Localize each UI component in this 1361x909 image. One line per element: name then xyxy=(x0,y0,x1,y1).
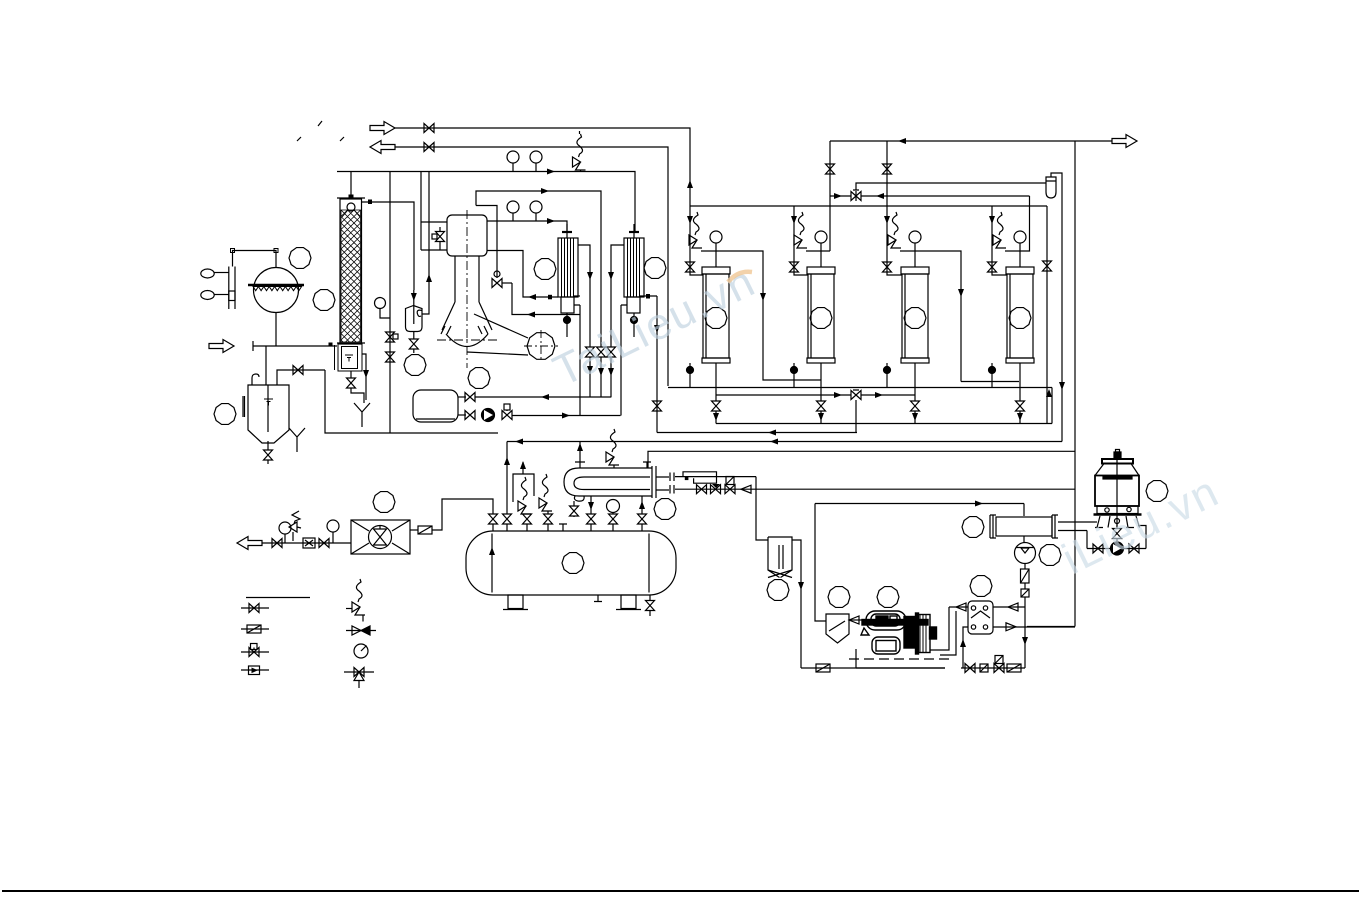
wire plate HX bottom left down xyxy=(963,627,968,668)
tag octagon plate HX xyxy=(970,576,992,597)
tag octagon HX1 xyxy=(534,259,556,280)
wire tank top to valve xyxy=(277,370,325,385)
sump drain valve xyxy=(350,371,352,378)
gauge on receiver xyxy=(607,500,620,513)
HX2 tubes xyxy=(628,238,640,297)
column E1 bottom cap xyxy=(702,358,730,363)
relief rv1 xyxy=(518,477,531,514)
receiver vessel V1 xyxy=(466,531,676,595)
nozzle left top xyxy=(575,442,585,469)
tower body xyxy=(1095,476,1139,507)
tag octagon condenser xyxy=(962,517,984,538)
bypass jog xyxy=(683,472,717,483)
valve on x657 xyxy=(653,401,662,411)
receiver tag octagon xyxy=(562,553,584,574)
nozzle n4 valve xyxy=(547,511,549,531)
HX1 bottom header xyxy=(561,297,574,313)
fan discharge xyxy=(410,529,418,531)
tag octagon xyxy=(289,248,311,269)
wire y451 header xyxy=(648,451,1075,468)
SA inner lines xyxy=(779,545,783,569)
wire y415 to x620 xyxy=(512,415,621,417)
wire x830 drop xyxy=(829,141,831,251)
receiver leg L xyxy=(508,595,523,609)
tag octagon motor xyxy=(468,368,490,389)
control valve oil xyxy=(816,664,830,672)
columns group xyxy=(686,180,822,424)
wire plate HX bottom right to loop xyxy=(993,626,1075,628)
column E2 stem xyxy=(820,363,822,401)
boundary arrow out right xyxy=(1112,135,1137,148)
wire y183 to filter xyxy=(856,183,1046,190)
wire converter side loop xyxy=(476,206,497,279)
3way valve with box xyxy=(502,411,512,420)
condenser CD1 xyxy=(996,517,1052,536)
wire y381 link xyxy=(961,381,1019,383)
suction accumulator SA xyxy=(768,537,792,578)
relief valve on overhead xyxy=(573,131,586,172)
tower shaft xyxy=(1116,459,1118,528)
column E2 feed xyxy=(794,206,808,275)
converter centerline xyxy=(466,210,468,368)
wire y423 bottoms header xyxy=(716,388,1052,424)
gauge2 on converter line xyxy=(530,201,542,221)
arrow up x1047 xyxy=(1046,389,1052,397)
pump P2 xyxy=(1111,542,1124,555)
wire suction drop xyxy=(756,477,768,540)
receiver drain valve xyxy=(649,595,651,616)
tag octagon receiver right xyxy=(654,499,676,520)
gauge fs2 xyxy=(327,520,339,532)
tag octagon HX2 xyxy=(644,258,666,279)
receiver leg R xyxy=(621,595,636,609)
wire converter top to HX1 xyxy=(487,221,567,232)
solenoid box xyxy=(1021,589,1029,597)
valve tw1 xyxy=(1093,544,1103,553)
feed arrow (air in) xyxy=(209,340,234,353)
control box fs xyxy=(303,538,315,548)
legend flow box xyxy=(241,669,269,671)
wire x1047 drop xyxy=(1046,206,1048,424)
pipe break marks xyxy=(670,473,674,494)
wire y396 to x611 xyxy=(475,396,611,398)
flow arrow overhead xyxy=(547,169,555,175)
wire equalize y395 xyxy=(716,394,915,396)
outlet arrow left line 2 xyxy=(370,141,395,154)
column E2 bottoms dot xyxy=(793,363,795,388)
flow arrow purge xyxy=(527,312,535,318)
pulley drive belt xyxy=(467,314,528,355)
tower top band xyxy=(1102,459,1133,464)
column E1 shell xyxy=(703,274,729,358)
pilot ellipse 2 xyxy=(201,291,214,300)
scrubber column C1: top flange xyxy=(337,197,365,199)
tank vent hook xyxy=(252,374,259,385)
column E3 tag octagon xyxy=(904,308,926,329)
three-way ob3 xyxy=(994,664,1004,673)
U-tube drain curl xyxy=(574,496,584,501)
igniter double rail xyxy=(229,267,235,310)
column E1 relief xyxy=(689,212,702,248)
arrow into pot xyxy=(411,293,417,301)
seal tank T1 shell xyxy=(248,385,289,443)
converter base dashline xyxy=(437,339,497,341)
column E4 stem xyxy=(1019,363,1021,401)
HX1 tubes xyxy=(562,238,574,297)
wire pump line xyxy=(1087,526,1146,549)
accumulator bottom line xyxy=(416,418,455,420)
legend line sample xyxy=(246,597,310,599)
suction arrowhead xyxy=(849,616,859,624)
tank inner line xyxy=(267,385,269,432)
tube stubs right xyxy=(656,477,669,490)
column E3 relief xyxy=(888,212,901,248)
watermark xyxy=(546,256,1227,584)
control valve ob4 xyxy=(1007,664,1021,672)
valve ob1 xyxy=(965,664,975,673)
HX1 stem xyxy=(566,224,568,238)
arrow x611 xyxy=(608,272,614,280)
bypass wire left upper xyxy=(421,221,447,223)
wire main bottom header xyxy=(253,341,337,351)
valve on x390 lower xyxy=(386,352,395,362)
HX2 bottom header xyxy=(627,297,640,313)
relief on U-tube xyxy=(606,429,619,468)
tank level mark xyxy=(264,399,273,406)
column E1 cap xyxy=(702,267,730,274)
tank drain xyxy=(267,441,269,450)
gauge PI2 on overhead xyxy=(530,151,542,171)
wire vertical x390 xyxy=(389,172,391,434)
nozzle n6 xyxy=(641,496,643,531)
wire SA to compressor drop xyxy=(792,540,801,668)
tag octagon SA xyxy=(767,580,789,601)
wire y206 header xyxy=(690,205,1047,207)
oil separator OS2 xyxy=(826,614,849,643)
pot vapor return riser xyxy=(422,172,429,315)
tower basin xyxy=(1097,506,1138,514)
wire overhead header to HX2 xyxy=(337,172,635,233)
gauge fs xyxy=(279,522,291,534)
plate HX PH1 xyxy=(968,601,993,634)
wire tower water inlet xyxy=(1095,521,1097,523)
valve on x830 xyxy=(826,164,835,174)
wire y191 header xyxy=(476,191,601,347)
U-tube exchanger shell xyxy=(564,468,652,496)
wire HX1 right down x590 xyxy=(578,245,590,347)
HX1 top tee xyxy=(562,231,572,233)
HX2 stem xyxy=(633,224,635,238)
receiver left seam xyxy=(491,534,493,593)
wire discharge y503 xyxy=(815,503,1024,505)
wire x1073 long drop xyxy=(1074,141,1076,627)
tag octagon comp right xyxy=(877,587,899,608)
wire TCV drop xyxy=(1024,597,1026,668)
flow arrow on product header xyxy=(898,138,906,144)
condenser right water nozzles xyxy=(1058,522,1095,549)
wire acc top nozzle xyxy=(458,396,466,398)
wire sphere stem xyxy=(275,313,277,347)
wire plate HX top left xyxy=(949,606,968,608)
valve with box on x390 xyxy=(386,332,395,342)
tower legs xyxy=(1095,516,1140,528)
oil filter xyxy=(1021,569,1030,583)
column E3 feed xyxy=(887,206,902,275)
legend check valve xyxy=(346,630,376,632)
triple valves xyxy=(586,347,595,357)
relief rv2 xyxy=(539,474,552,511)
column E2 bottom cap xyxy=(807,358,835,363)
wire vertical x421 xyxy=(420,172,422,251)
wire x1029 link xyxy=(1005,196,1030,251)
purge valve with float xyxy=(494,271,500,277)
tower spray bar xyxy=(1103,477,1132,480)
valve m1 xyxy=(697,485,707,494)
column E1 tag octagon xyxy=(705,308,727,329)
column sump xyxy=(338,344,362,371)
stray tick marks xyxy=(297,121,344,141)
pot dip tube xyxy=(413,290,415,324)
tag octagon xyxy=(214,404,236,425)
gauge at x380 xyxy=(375,298,386,309)
pilot ellipse 1 xyxy=(201,269,214,278)
tower motor xyxy=(1114,452,1121,459)
wire tube side inlet xyxy=(675,477,1075,490)
wire sump drain zigzag xyxy=(351,388,364,403)
legend valve xyxy=(241,607,269,609)
wire return line 2 xyxy=(395,147,668,386)
vent arrow left xyxy=(237,537,262,550)
pulley wheel xyxy=(524,330,558,362)
legend relief xyxy=(346,608,352,610)
tower drain circle xyxy=(1115,519,1120,524)
wire column top riser xyxy=(350,172,352,199)
column E3 shell xyxy=(902,274,928,358)
receiver bottom cap stub xyxy=(594,595,602,602)
distributor circle xyxy=(347,203,355,211)
column E2 relief discharge xyxy=(806,250,830,252)
svg-text:iLieu.vn: iLieu.vn xyxy=(1055,466,1227,584)
tag octagon mid xyxy=(404,355,426,376)
gauge on converter line xyxy=(507,201,519,221)
valve acc top xyxy=(465,393,475,402)
valve m3 xyxy=(725,485,735,494)
flow arrow into converter xyxy=(528,294,536,300)
converter cone base xyxy=(441,326,488,347)
wire y432 header xyxy=(657,432,857,434)
column E2 tag octagon xyxy=(810,308,832,329)
wire comp to plate HX lines xyxy=(930,607,956,655)
wire y387 header xyxy=(668,387,1052,389)
flow arrow to HX1 xyxy=(547,218,555,224)
valve tw2 xyxy=(1129,544,1139,553)
U-tube inner tube xyxy=(574,477,650,490)
wire acc bottom nozzle xyxy=(458,414,466,416)
arrows below triple valves xyxy=(587,366,593,374)
bracket wire over sphere xyxy=(233,251,277,268)
pump P1 xyxy=(482,409,495,422)
HX2 shell xyxy=(624,238,644,297)
wire xyxy=(1024,583,1026,589)
HX2 right header tick to x657 xyxy=(640,296,657,433)
valve on return line xyxy=(424,143,434,152)
wire condenser feed drop xyxy=(1023,504,1025,517)
column E4 bottoms dot xyxy=(991,363,993,388)
gauge PI on overhead xyxy=(507,151,519,171)
HX1 shell xyxy=(558,238,578,297)
flow arrow y396 xyxy=(541,394,549,400)
pot curl xyxy=(417,310,422,316)
wire fan to receiver xyxy=(432,499,493,530)
column E1 gauge xyxy=(710,231,722,243)
flow arrow y432 xyxy=(768,430,776,436)
column E3 bottoms dot xyxy=(886,363,888,388)
compressor CM1 body xyxy=(861,611,937,654)
bypass valve with box xyxy=(439,227,441,250)
wire converter right to HX1 bottom xyxy=(487,251,558,298)
receiver right seam xyxy=(648,534,650,593)
filter dryer FD xyxy=(1046,177,1056,198)
arrow on x657 xyxy=(654,325,660,333)
column E4 feed xyxy=(992,206,1007,275)
column E4 relief xyxy=(993,212,1006,248)
wire bracket drop xyxy=(232,253,234,267)
arrow x590 xyxy=(587,272,593,280)
column E3 cap xyxy=(901,267,929,274)
valve on top supply xyxy=(424,124,434,133)
column E4 inner line xyxy=(1009,274,1011,358)
flow arrow y191 xyxy=(541,188,549,194)
column E4 cap xyxy=(1006,267,1034,274)
tag octagon comp left xyxy=(828,587,850,608)
column E2 gauge xyxy=(815,231,827,243)
flow arrow y441 xyxy=(770,439,778,445)
column E3 gauge xyxy=(909,231,921,243)
wire oil line left xyxy=(801,667,945,669)
bypass wire left lower xyxy=(421,249,447,251)
column E2 shell xyxy=(808,274,834,358)
tag octagon xyxy=(313,290,335,311)
capped stub xyxy=(559,524,567,531)
wire top product header xyxy=(830,140,1112,142)
column E4 gauge xyxy=(1014,231,1026,243)
packing hatch xyxy=(341,210,361,342)
HX2 drain dot xyxy=(633,313,635,317)
column E4 tag octagon xyxy=(1009,308,1031,329)
bracket square L xyxy=(231,249,235,253)
wire x887 drop from header xyxy=(886,141,888,206)
column bottom flange xyxy=(337,342,365,344)
HX2 header left drop xyxy=(621,305,627,416)
wire y441 header xyxy=(507,441,1062,443)
HX1 header right drop xyxy=(574,305,580,416)
flow arrow y415 xyxy=(562,413,570,419)
wire comp bottom xyxy=(856,649,945,668)
legend gauge xyxy=(354,644,368,658)
scrubber shell xyxy=(340,199,362,344)
funnel F1 xyxy=(354,403,370,427)
valve fs2 xyxy=(319,539,329,548)
column E1 feed xyxy=(690,206,703,275)
valve on x887 xyxy=(883,164,892,174)
oil ball collector xyxy=(1023,536,1025,543)
wire filter outlet up over xyxy=(1051,173,1062,442)
nozzle right top xyxy=(643,462,651,468)
pot vessel D2 xyxy=(406,306,423,332)
nozzle n2 riser xyxy=(506,442,508,532)
control valve fd xyxy=(418,526,432,534)
column E3 stem xyxy=(914,363,916,401)
tower shoulder xyxy=(1095,464,1139,476)
sump left bracket xyxy=(334,345,336,370)
pot drain valve xyxy=(413,332,415,340)
wire drop to tank xyxy=(265,346,267,385)
valve m2 check xyxy=(711,485,721,494)
burner grate line xyxy=(248,284,304,286)
valve fs1 xyxy=(272,539,282,548)
HX1 drain dot xyxy=(566,313,568,317)
tag octagon tower xyxy=(1146,481,1168,502)
tag octagon ball xyxy=(1039,545,1061,566)
column E1 bottoms dot xyxy=(689,363,691,388)
converter trunk xyxy=(442,256,492,330)
wire loop bottom right end xyxy=(1027,626,1075,628)
legend three-way xyxy=(344,671,374,673)
drain valve dv xyxy=(573,501,575,517)
nozzle n1 valve xyxy=(492,515,494,532)
wire ball down xyxy=(1024,564,1026,570)
column E3 bottom cap xyxy=(901,358,929,363)
wire oil bottom line right xyxy=(961,667,1025,669)
burner grate teeth xyxy=(253,287,302,291)
legend control valve xyxy=(241,628,269,630)
three-way valve TV2 xyxy=(851,391,861,400)
funnel F2 xyxy=(289,428,305,452)
column E3 inner line xyxy=(904,274,906,358)
flow arrows y196 xyxy=(834,193,842,199)
wires below triple valves xyxy=(590,357,611,397)
column E4 bottom cap xyxy=(1006,358,1034,363)
valve acc bottom xyxy=(465,411,475,420)
bottom border xyxy=(2,890,1359,892)
inlet arrow N2 top xyxy=(370,122,395,135)
column E2 inner line xyxy=(810,274,812,358)
column E3 relief discharge xyxy=(900,251,961,382)
arrow on x1062 xyxy=(1059,382,1065,390)
wire down to bottom long header xyxy=(325,370,498,433)
burner sphere B1 xyxy=(254,268,299,313)
accumulator D3 xyxy=(413,390,458,422)
three-way valve TV1 xyxy=(851,192,861,201)
relief fs xyxy=(289,511,301,541)
compressor skid dashes xyxy=(849,658,950,660)
column E1 stem xyxy=(715,363,717,401)
wire pilot1 xyxy=(214,272,229,274)
fan blower FB1 xyxy=(351,520,410,554)
wire plate HX top right xyxy=(993,606,1025,608)
column E2 relief xyxy=(794,212,807,248)
converter R1 top box xyxy=(447,215,487,256)
U-tube right flange xyxy=(652,466,656,498)
junction tick xyxy=(368,200,372,205)
tank left bracket xyxy=(243,396,245,417)
tag octagon fan xyxy=(373,492,395,513)
box ob2 xyxy=(980,664,988,672)
wire loop left x815 xyxy=(815,504,826,622)
HX1 right header tick xyxy=(574,295,580,297)
column E4 shell xyxy=(1007,274,1033,358)
wire fan suction xyxy=(262,542,351,544)
